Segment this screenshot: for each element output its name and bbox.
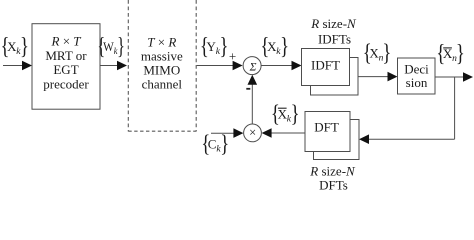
svg-text:T × R: T × R (147, 34, 176, 49)
svg-text:×: × (249, 126, 256, 140)
block: DFT (stacked pair) (305, 112, 359, 160)
svg-text:R size-N: R size-N (309, 164, 356, 179)
wire: channel to adder (197, 61, 243, 71)
block: IDFT (stacked pair) (302, 49, 359, 96)
adder sum junction (243, 57, 261, 75)
wire: multiplier up to adder (minus input) (248, 75, 258, 124)
wire: precoder to channel (100, 61, 127, 71)
wire: IDFT to decision (358, 72, 398, 82)
svg-text:}: } (220, 130, 229, 157)
block: Decision (398, 58, 436, 94)
svg-text:massive: massive (141, 49, 183, 64)
svg-text:}: } (291, 100, 300, 127)
svg-text:W: W (103, 39, 114, 54)
block: T x R massive MIMO channel (dashed, no top edge) (128, 0, 196, 132)
svg-text:sion: sion (406, 75, 428, 90)
node label {X_n} (363, 39, 392, 66)
label R size-N DFTs (309, 164, 356, 193)
svg-text:}: } (220, 33, 229, 60)
svg-text:DFTs: DFTs (319, 178, 348, 193)
svg-text:}: } (280, 33, 289, 60)
svg-text:IDFTs: IDFTs (318, 31, 351, 46)
multiplier junction (244, 124, 262, 142)
node label {X_k} after adder (260, 33, 289, 60)
svg-text:}: } (20, 33, 29, 60)
svg-text:}: } (456, 40, 465, 67)
svg-text:MRT or: MRT or (45, 48, 87, 63)
wire: adder to IDFT (261, 61, 301, 71)
svg-text:precoder: precoder (43, 76, 89, 91)
node label {Xbar_k} (271, 100, 300, 127)
wire: feedback branch down and left into DFT (359, 77, 455, 144)
svg-text:R × T: R × T (50, 33, 81, 48)
svg-text:Σ: Σ (249, 61, 257, 73)
svg-text:channel: channel (142, 77, 183, 92)
wire: DFT to multiplier (262, 128, 305, 138)
svg-text:C: C (208, 137, 217, 152)
node label {X_k} input (1, 33, 29, 60)
svg-text:R size-N: R size-N (310, 16, 357, 31)
svg-text:}: } (382, 39, 391, 66)
svg-text:EGT: EGT (53, 62, 78, 77)
svg-text:}: } (117, 34, 125, 60)
block: R x T MRT or EGT precoder (32, 24, 100, 110)
node label {Y_k} (200, 33, 229, 60)
node label {W_k} (97, 34, 125, 60)
wire: input arrow into precoder (3, 61, 32, 71)
svg-text:+: + (229, 49, 236, 64)
svg-text:MIMO: MIMO (143, 63, 180, 78)
wire: decision output arrow (435, 72, 473, 82)
label R size-N IDFTs (310, 16, 357, 46)
node label {C_k} (201, 130, 229, 157)
wire: C_k input to multiplier (211, 128, 243, 138)
minus sign at adder input (246, 88, 250, 90)
svg-text:IDFT: IDFT (311, 58, 340, 73)
node label {Xbar_n} (436, 40, 465, 67)
svg-text:DFT: DFT (314, 119, 339, 134)
